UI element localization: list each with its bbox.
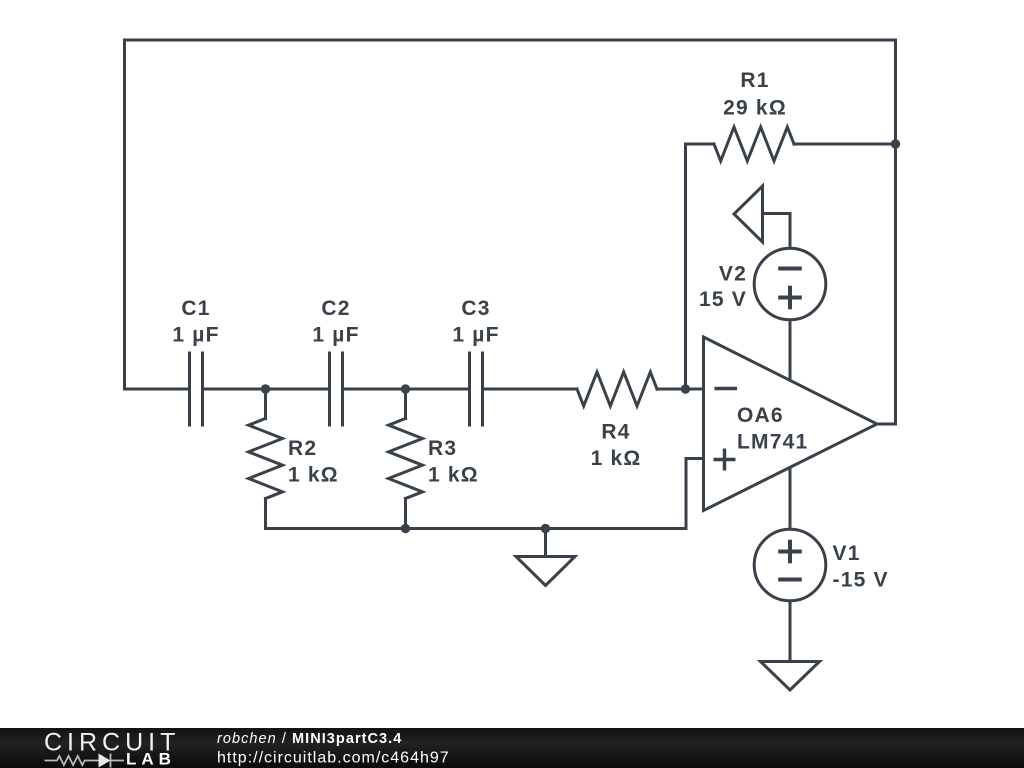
svg-text:1 kΩ: 1 kΩ bbox=[428, 464, 479, 487]
svg-text:-15 V: -15 V bbox=[833, 569, 889, 592]
svg-text:29 kΩ: 29 kΩ bbox=[723, 97, 787, 120]
svg-text:C1: C1 bbox=[181, 297, 210, 320]
svg-text:1 µF: 1 µF bbox=[172, 324, 219, 347]
svg-text:http://circuitlab.com/c464h97: http://circuitlab.com/c464h97 bbox=[217, 750, 450, 767]
svg-text:robchen / MINI3partC3.4: robchen / MINI3partC3.4 bbox=[217, 731, 402, 747]
svg-text:V2: V2 bbox=[719, 263, 747, 286]
svg-text:1 µF: 1 µF bbox=[312, 324, 359, 347]
svg-text:R2: R2 bbox=[288, 437, 317, 460]
svg-text:15 V: 15 V bbox=[699, 288, 747, 311]
svg-text:R1: R1 bbox=[740, 69, 769, 92]
svg-text:C3: C3 bbox=[461, 297, 490, 320]
svg-text:1 µF: 1 µF bbox=[452, 324, 499, 347]
svg-text:OA6: OA6 bbox=[737, 404, 784, 427]
svg-text:C2: C2 bbox=[321, 297, 350, 320]
svg-text:LAB: LAB bbox=[126, 750, 176, 768]
svg-text:1 kΩ: 1 kΩ bbox=[288, 464, 339, 487]
svg-text:R3: R3 bbox=[428, 437, 457, 460]
svg-text:1 kΩ: 1 kΩ bbox=[591, 447, 642, 470]
svg-text:R4: R4 bbox=[601, 421, 630, 444]
svg-text:LM741: LM741 bbox=[737, 431, 808, 454]
svg-text:V1: V1 bbox=[833, 542, 861, 565]
